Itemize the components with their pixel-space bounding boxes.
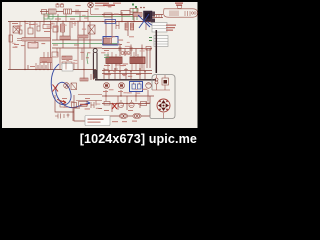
wire crt neck (152, 15, 163, 18)
transformer T801 winding (133, 13, 142, 17)
capacitor C801 (76, 10, 78, 15)
transistor Q301 (118, 46, 122, 52)
wire links y96-103 (106, 96, 148, 104)
resistor R404 (37, 26, 40, 31)
crt gun circles (191, 12, 193, 14)
green pin marks (149, 38, 152, 41)
resistor R810 (121, 11, 130, 16)
red X mark (53, 85, 59, 92)
wire mid bus2 (52, 40, 102, 48)
wire top-left extra verticals (20, 14, 75, 30)
coil L801 oo (120, 114, 128, 118)
note text lines (88, 119, 104, 120)
resistor R520 (60, 102, 65, 108)
fuse F801 (49, 9, 57, 14)
flyback FBT dark core (144, 11, 156, 23)
label C333 (80, 104, 88, 105)
transistor Q602 circle (119, 83, 125, 89)
connector P901 (44, 14, 48, 19)
inductor L801a (42, 10, 47, 15)
wire IC pins below (108, 52, 144, 71)
ic IC801 (104, 13, 112, 17)
label text beside table (166, 25, 176, 26)
wire right column (149, 49, 151, 104)
rounded enclosure speaker box (150, 75, 175, 119)
blue annotation rectangle (103, 37, 118, 46)
diode D405 (53, 26, 58, 32)
wire bottom-left links (83, 70, 85, 80)
wire RP401 pins (36, 52, 52, 70)
wire bottom row left extension (76, 100, 102, 102)
coil L301 circles (121, 52, 130, 55)
resistor R412 hatched (62, 56, 72, 60)
wire rail x25 (24, 22, 26, 70)
wire below thick bus (102, 90, 154, 96)
capacitor C402 (28, 28, 33, 34)
wire bottom row (98, 104, 150, 113)
wire mid verticals (57, 22, 90, 70)
wire mid stubs (57, 48, 82, 70)
coil L802 oo (133, 114, 141, 118)
relay RL801 (56, 4, 59, 7)
crt tube outline (164, 9, 198, 17)
ic IC301 hatched (106, 57, 122, 64)
thick ground bus (95, 79, 156, 81)
capacitor C505 (91, 74, 94, 80)
degauss coil symbol (157, 99, 170, 112)
wire rail x35 (34, 22, 36, 49)
deflection yoke dark hook (93, 49, 97, 80)
wire green top (48, 16, 133, 18)
label speckles bottom (112, 121, 137, 123)
wire rail x50 (50, 22, 52, 70)
ic IC302 hatched (130, 57, 145, 64)
coil in enclosure (155, 78, 158, 90)
anode cap symbol (177, 6, 182, 9)
green dash mid (104, 55, 109, 58)
wire left rail (9, 22, 11, 70)
ic IC402 label (43, 25, 51, 29)
bridge rectifier D401 (13, 26, 22, 41)
label text power (95, 3, 109, 5)
crt grid ticks (185, 11, 190, 16)
crt neck ticks (154, 15, 162, 18)
capacitor C412 (62, 62, 72, 65)
wire green yoke arc (87, 52, 88, 64)
bridge rectifier hatched bar (22, 38, 50, 42)
note box bottom with text (85, 116, 110, 126)
transformer windings mid-top (125, 23, 134, 30)
capacitor C403 (19, 30, 22, 34)
resistor R503 hatched (80, 78, 88, 81)
diode D520 (91, 101, 96, 109)
capacitor C405 block (28, 43, 38, 49)
transistor Q502 circle (64, 83, 70, 89)
red X mark 2 (112, 103, 117, 109)
diode D410 (52, 52, 58, 57)
wire enclosure links (145, 75, 170, 119)
resistor R403 hatched (78, 35, 88, 38)
wire right top (102, 15, 152, 22)
resistor pack RP401 hatched (40, 58, 52, 63)
junction dots (24, 3, 145, 104)
capacitor C702 marks (55, 114, 70, 119)
wire switch drop (102, 14, 133, 16)
resistor R401 vertical (9, 35, 13, 42)
label crt text (175, 3, 183, 4)
red arrow annotation (57, 100, 66, 104)
tick components on bus row (104, 68, 143, 71)
line filter LF801 (64, 9, 72, 14)
paper sheet (2, 2, 198, 128)
table note box mid (154, 36, 168, 47)
transformer T402 (88, 25, 95, 34)
wire ticks bottom-left bus (28, 65, 46, 70)
wire mid area verticals (106, 12, 146, 38)
resistor R812 (130, 9, 138, 13)
thick vertical HV lead (155, 30, 157, 73)
wire mid-right block (102, 45, 152, 69)
resistor in enclosure (162, 78, 169, 85)
transistor Q603 (146, 83, 152, 89)
green connector dots (132, 4, 137, 9)
component marked X bottom (72, 103, 77, 108)
resistor R305 small (146, 47, 151, 51)
transistor Q801 bottom (118, 100, 123, 108)
transformer winding hatched in blue box (104, 38, 112, 44)
wire lower-left horizontal (78, 94, 102, 96)
transistor Q802 bottom (129, 100, 134, 108)
wire bottom link (55, 95, 85, 121)
tiny label speckles (12, 19, 141, 112)
wire top bus (8, 21, 150, 23)
tiny label speckles extra (12, 5, 147, 110)
resistor R407 hatched (61, 24, 65, 32)
motor symbol M801 (88, 2, 102, 21)
capacitor C810 below bus (116, 22, 119, 29)
table note box top (152, 23, 167, 33)
label KA5Q text (103, 5, 115, 7)
wire ac line (40, 12, 88, 22)
wire green verticals top (133, 8, 137, 20)
blue underline annotation (105, 20, 116, 24)
blue X mark over flyback (138, 14, 157, 29)
blue annotation box lower (130, 82, 143, 92)
wire green mid (52, 43, 118, 45)
blue lasso annotation (51, 64, 90, 108)
capacitor pair in blue box (132, 83, 141, 90)
watermark text (0, 132, 197, 146)
relay box K501 (62, 64, 73, 72)
capacitor C520 box (79, 102, 88, 107)
wire coil row (102, 110, 150, 116)
resistor R402 hatched (60, 36, 70, 40)
crt heater ticks (170, 11, 178, 17)
wire bottom-left bus (8, 69, 96, 71)
resistor bottom boxes (104, 102, 147, 106)
wire lower mid bus (102, 68, 152, 79)
transistor Q501 (71, 83, 77, 90)
transistor Q601 circle (104, 83, 110, 89)
transistor Q302 (129, 46, 133, 52)
